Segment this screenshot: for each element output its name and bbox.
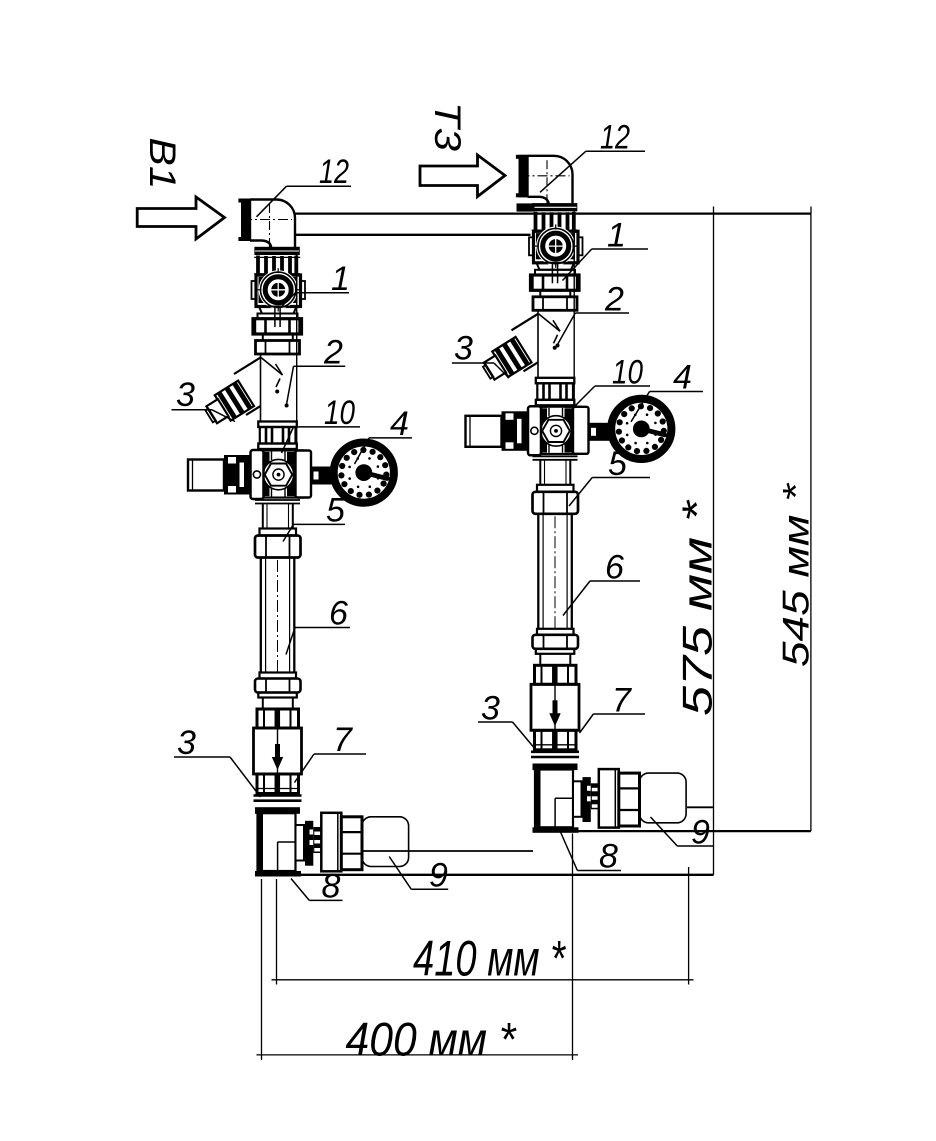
extension line fitting 9 (410) (688, 867, 690, 985)
svg-text:В1: В1 (142, 138, 183, 190)
svg-text:3: 3 (454, 330, 473, 368)
dimension line 575 mm (713, 214, 715, 875)
leader label 12 (left) (257, 186, 352, 217)
extension line right riser (400) (572, 834, 574, 1061)
svg-text:575 мм *: 575 мм * (674, 499, 721, 716)
extension line left elbow (400) (261, 879, 263, 1060)
svg-text:1: 1 (607, 217, 626, 255)
top header pipe lower line (296, 234, 531, 236)
flow arrow T3 (420, 155, 505, 197)
tick at node 545 (810, 207, 812, 214)
leader label 12 (right) (540, 151, 645, 192)
svg-text:5: 5 (326, 492, 345, 530)
T3 bottom branch lower line (578, 830, 811, 832)
top header pipe upper line (296, 212, 812, 214)
T3 flange extra width (517, 203, 535, 211)
leader label 2 (right) (556, 313, 630, 348)
dimension line 400 mm (257, 1054, 579, 1056)
leader label 10 (right) (569, 386, 650, 412)
svg-text:410 мм *: 410 мм * (413, 931, 566, 987)
svg-text:6: 6 (605, 549, 624, 587)
T3 bottom branch upper line (687, 806, 714, 808)
riser assembly T3 (right) (466, 155, 687, 833)
svg-text:6: 6 (329, 595, 348, 633)
svg-text:Т3: Т3 (427, 102, 468, 151)
riser assembly B1 (left) (188, 199, 409, 877)
leader label 10 (left) (282, 427, 361, 453)
tick at node 575 (713, 207, 715, 214)
leader label 1 (right) (563, 249, 649, 281)
flow arrow B1 (137, 197, 224, 239)
svg-text:2: 2 (323, 334, 343, 372)
svg-text:2: 2 (604, 281, 624, 319)
svg-text:400 мм *: 400 мм * (346, 1013, 518, 1066)
svg-text:3: 3 (177, 724, 196, 762)
svg-text:3: 3 (481, 690, 500, 728)
svg-text:12: 12 (319, 153, 349, 191)
extension line left pipe axis (410) (276, 879, 278, 985)
leader label 8 (right) (561, 832, 622, 871)
dimension line 410 mm (272, 979, 694, 981)
svg-text:1: 1 (331, 260, 350, 298)
leader label 5 (left) (283, 524, 345, 541)
svg-text:9: 9 (691, 814, 710, 852)
leader label 3 strainer plug (right) (452, 363, 509, 378)
svg-text:4: 4 (673, 359, 692, 397)
B1 bottom branch lower line (301, 874, 714, 876)
leader label 3 strainer plug (left) (172, 410, 236, 422)
svg-text:3: 3 (176, 376, 195, 414)
svg-text:8: 8 (322, 868, 341, 906)
leader label 3 drain (left) (174, 757, 261, 797)
leader label 3 drain (right) (478, 722, 536, 750)
leader label 7 (right) (580, 714, 646, 733)
leader label 2 (left) (285, 366, 346, 407)
leader label 6 (right) (563, 581, 640, 616)
svg-text:7: 7 (612, 682, 632, 720)
B1 bottom branch upper line (362, 850, 533, 852)
svg-text:10: 10 (324, 394, 355, 432)
svg-text:12: 12 (600, 119, 630, 157)
svg-text:9: 9 (429, 857, 448, 895)
leader label 4 (left) (355, 438, 413, 464)
svg-text:7: 7 (333, 721, 353, 759)
leader label 7 (left) (295, 754, 367, 783)
svg-text:4: 4 (390, 405, 409, 443)
svg-text:8: 8 (599, 838, 618, 876)
dimension line 545 mm (810, 214, 812, 832)
leader label 6 (left) (286, 628, 350, 655)
svg-text:5: 5 (608, 445, 627, 483)
leader label 9 (right) (651, 817, 715, 846)
leader label 8 (left) (291, 879, 343, 901)
svg-text:10: 10 (612, 354, 643, 392)
leader label 5 (right) (569, 478, 650, 507)
svg-text:545 мм *: 545 мм * (776, 482, 817, 667)
leader label 1 (left) (282, 293, 350, 307)
leader label 4 (right) (631, 392, 703, 422)
leader label 9 (left) (389, 857, 448, 890)
